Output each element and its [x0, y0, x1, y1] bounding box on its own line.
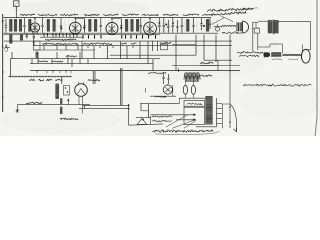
voice coil bumps	[282, 54, 301, 55]
label det 2	[52, 61, 63, 62]
terminal column	[196, 98, 222, 127]
secondary feed wires	[151, 113, 196, 128]
component tails left	[44, 33, 77, 36]
mid label right	[160, 42, 171, 43]
drop wire right	[222, 104, 230, 128]
mid verticals 2	[82, 41, 140, 59]
coil L9	[125, 20, 128, 32]
scan tone haze	[0, 0, 320, 134]
arrow tap	[67, 98, 69, 104]
wire to output tube	[214, 25, 236, 26]
core hatch bar W2	[206, 97, 213, 125]
heater bus wire	[30, 66, 240, 129]
mid label row 2	[42, 43, 78, 45]
mid verticals	[44, 46, 78, 50]
AC plug	[15, 105, 19, 113]
electrolytic C-B	[191, 80, 195, 98]
mid wire y41	[4, 40, 232, 42]
wire riser	[61, 77, 63, 84]
winding scribble	[184, 73, 200, 83]
capacitor C1	[5, 19, 7, 33]
value label row top 2	[38, 14, 57, 16]
driver terminal post	[253, 22, 259, 34]
tiny caption top	[244, 8, 258, 9]
coil L4	[29, 20, 32, 32]
capacitor C12	[172, 18, 174, 33]
tube V7	[163, 84, 172, 94]
avc wire y58	[11, 58, 161, 60]
capacitor C17	[209, 18, 211, 29]
value label row top 6	[122, 14, 139, 16]
transformer box 1	[184, 100, 205, 106]
output blob	[263, 52, 270, 58]
scan grain overlay	[0, 0, 320, 136]
capacitor C8	[140, 18, 142, 34]
AC cord label	[26, 102, 42, 104]
voice coil hatch	[272, 53, 282, 57]
component tails mid	[83, 35, 156, 39]
coil L1	[10, 20, 13, 32]
cap stack a	[26, 33, 28, 38]
mid wire y50	[33, 49, 95, 51]
driver terminal box	[254, 28, 259, 33]
rectifier socket box	[64, 86, 70, 96]
field drop wire a	[253, 33, 258, 51]
left coil tails	[10, 35, 13, 44]
ticked chassis wire	[9, 75, 73, 77]
wire stub V3 grid	[113, 19, 122, 31]
label near heater end	[148, 72, 166, 74]
primary wire y103	[140, 98, 180, 103]
label right mid	[200, 60, 218, 76]
capacitor C10	[163, 18, 165, 33]
value label row top 7	[142, 14, 158, 16]
capacitor C6	[100, 18, 102, 33]
coil L13	[206, 20, 209, 32]
coil L2	[14, 20, 17, 32]
driver unit bars	[237, 22, 242, 31]
full frame label	[237, 52, 263, 57]
schematic note line 1	[207, 7, 253, 12]
pot wire	[136, 117, 151, 119]
top bus wire	[4, 17, 212, 19]
wire stub V2 grid	[76, 19, 85, 31]
long note line	[243, 84, 311, 86]
ground bus riser	[10, 59, 12, 77]
capacitor C5	[83, 19, 85, 33]
label det 3	[66, 56, 77, 57]
primary wire y98	[179, 97, 206, 99]
value label row top 3	[60, 14, 78, 16]
line switch wires	[146, 85, 176, 96]
capacitor C2	[23, 18, 25, 33]
label 10mfd	[88, 79, 100, 81]
top band texture	[5, 19, 217, 32]
mid box	[34, 41, 41, 50]
driver label	[222, 32, 242, 34]
note leader line	[220, 16, 233, 22]
coil L11	[136, 20, 139, 32]
mid label row 4	[121, 43, 137, 44]
label under resistors	[60, 118, 78, 120]
tube V3	[106, 18, 118, 35]
antenna terminal box	[14, 1, 19, 7]
capacitor C13	[176, 20, 178, 33]
output transformer T2	[256, 20, 278, 35]
tube V2	[70, 18, 82, 35]
rectifier tube V6	[75, 82, 88, 114]
detector leader wire	[212, 18, 224, 25]
capacitor C3	[41, 18, 43, 33]
transformer box 1 label	[187, 103, 202, 104]
heater ticks	[36, 70, 71, 73]
capacitor C9	[158, 18, 160, 33]
mid label row 1	[45, 39, 76, 41]
B+ wire	[83, 105, 130, 107]
field drop wire c	[258, 44, 283, 54]
schematic note line 2	[211, 11, 246, 15]
small coil det	[36, 52, 38, 58]
frame bottom wire	[306, 49, 311, 51]
screen drop wires	[121, 68, 122, 105]
photo right edge	[315, 0, 317, 136]
mid wire y45	[33, 45, 232, 47]
B- wire	[79, 108, 130, 110]
capacitor C15	[192, 18, 194, 33]
coil L7	[89, 20, 92, 32]
pot risers	[141, 104, 149, 118]
right mid h segs	[110, 45, 240, 66]
field drop wire b	[301, 45, 303, 54]
filter vertical a	[83, 105, 85, 109]
left margin ink bar	[2, 14, 4, 112]
speaker cone	[301, 49, 310, 63]
capacitor C7	[120, 19, 122, 33]
switch label	[152, 116, 172, 122]
grid cap blob V1	[60, 27, 62, 29]
value label row top 10	[202, 14, 210, 16]
small junction blobs	[158, 22, 205, 27]
right mid verticals	[176, 35, 230, 71]
bottom caption	[153, 130, 220, 135]
pin labels	[29, 79, 61, 81]
voice coil label	[272, 58, 298, 60]
small can component	[215, 24, 219, 31]
value label row top 4	[84, 14, 99, 16]
left coil tail 2	[20, 35, 23, 40]
coil L8	[94, 20, 97, 32]
value label row top 5	[103, 14, 118, 16]
plate drop wires	[93, 71, 95, 84]
right mid small rect	[161, 44, 168, 50]
node A label	[5, 45, 10, 52]
value label row top 1	[20, 14, 35, 16]
wire tube to transformer	[259, 20, 269, 22]
divider staircase wire	[129, 104, 163, 125]
filter vertical b	[87, 104, 89, 107]
wire transformer to frame	[278, 20, 311, 22]
speaker cable curve	[230, 104, 237, 132]
value label row top 8	[163, 14, 178, 15]
coil L3	[19, 20, 22, 32]
primary stack	[162, 69, 178, 85]
capacitor C16	[200, 18, 202, 30]
AC cord wire	[17, 104, 90, 106]
label det 1	[38, 61, 48, 62]
coil L6	[53, 20, 56, 32]
antenna lead wire	[15, 6, 17, 17]
pot triangle	[137, 116, 150, 125]
mid label row 3	[83, 43, 112, 45]
low verticals	[12, 41, 158, 71]
coil L12	[187, 20, 190, 32]
avc wire y63	[30, 63, 153, 65]
choke winding W1	[56, 84, 59, 99]
coil L10	[131, 20, 134, 32]
value label row top 9	[183, 14, 199, 16]
coil L5	[47, 20, 50, 32]
transformer box 2	[184, 107, 205, 124]
resistor R1	[60, 99, 62, 104]
capacitor C14	[181, 18, 183, 33]
resistor R2	[60, 107, 62, 114]
lower bus wire 1	[4, 32, 219, 34]
lower bus wire 2	[4, 34, 161, 36]
mid wire y37	[40, 36, 83, 38]
115V label	[155, 96, 166, 98]
driver unit dome	[243, 21, 249, 33]
frame right wire	[309, 21, 311, 50]
tube V1	[30, 18, 39, 35]
tube V4	[144, 18, 157, 35]
electrolytic C-A	[183, 80, 187, 98]
capacitor C11	[167, 20, 169, 33]
cap stack b	[33, 33, 35, 45]
capacitor C4	[60, 18, 62, 33]
